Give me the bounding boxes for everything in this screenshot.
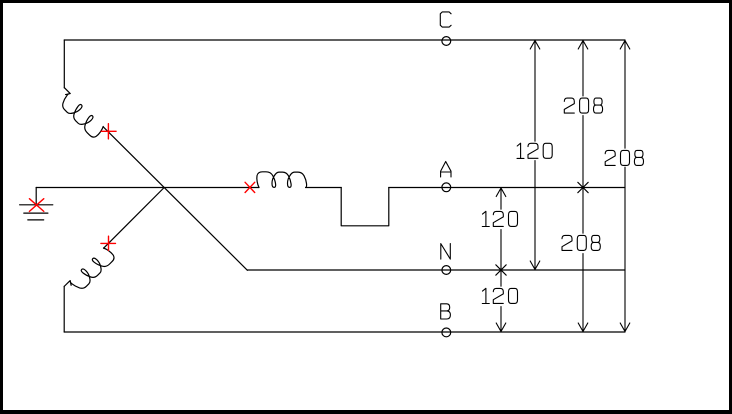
dimension text 120 (A-N) [482, 211, 517, 226]
terminal circle B [442, 328, 451, 337]
red X polarity mark on winding L3 [245, 182, 255, 192]
label A [441, 162, 451, 178]
dimension text 120 (C-N) [517, 143, 552, 158]
wire: jog step in A phase conductor [341, 188, 389, 226]
wire: diagonal from winding L1 through node to N wire [103, 127, 247, 270]
wire: ground tap horizontal to center node [36, 187, 259, 189]
wire: phase C top bus from left corner to right extension [64, 39, 625, 41]
label N [441, 244, 451, 260]
terminal circle N [442, 266, 451, 275]
dimension text 208 (C-B) [605, 150, 643, 165]
ground vertical stem [35, 188, 37, 205]
wire: A phase run to right extension [389, 187, 625, 189]
inductor winding L2 (B-phase coil, diagonal) [64, 248, 114, 288]
wire: neutral N horizontal run [247, 269, 625, 271]
red X mark at ground bond [29, 199, 43, 212]
red polarity + mark on winding L1 [101, 124, 116, 139]
wire: vertical from winding L2 down to B bus [63, 286, 65, 332]
inductor winding L3 (A-phase coil, horizontal) [257, 172, 307, 188]
label B [441, 304, 451, 319]
red polarity + mark on winding L2 [101, 236, 116, 250]
dimension text 208 (C-A) [564, 98, 602, 113]
terminal circle C [442, 37, 451, 46]
wire: A phase segment after coil [306, 187, 342, 189]
wire: diagonal from node down to winding L2 [104, 188, 165, 249]
inductor winding L1 (C-phase coil, diagonal) [63, 88, 103, 137]
dimension text 208 (A-B) [562, 235, 600, 250]
ground symbol bars [20, 205, 53, 220]
dimension line C-B at x=625 [620, 40, 630, 332]
label C [440, 12, 451, 27]
wire: phase B bottom bus [64, 331, 625, 333]
wire: left vertical drop from C bus to winding L1 [63, 40, 65, 88]
terminal circle A [442, 183, 451, 192]
dimension line C-A-B at x=583 [578, 40, 588, 332]
dimension line A-N-B at x=501 [496, 188, 506, 333]
dimension line C-N at x=535 [530, 40, 540, 270]
dimension text 120 (N-B) [482, 288, 517, 303]
